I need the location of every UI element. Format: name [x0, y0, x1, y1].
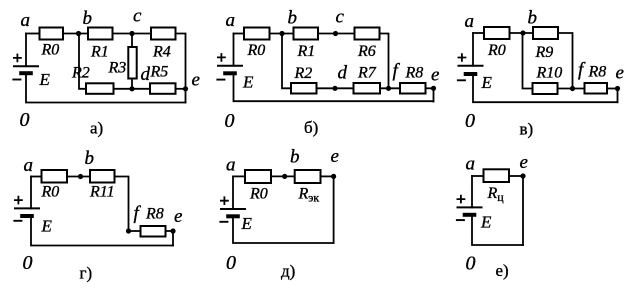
svg-text:R0: R0 — [487, 42, 506, 59]
wire R8 to node e (circuit v) — [608, 88, 618, 90]
wire battery - to node 0 and bottom rail (circuit a) — [26, 75, 186, 102]
wire node a to Rc (circuit e) — [472, 175, 483, 177]
wire R0 to R1 through node b (circuit a) — [64, 33, 87, 35]
svg-text:b: b — [85, 148, 95, 169]
svg-text:E: E — [481, 73, 493, 92]
wire node e down to bottom rail (circuit b) — [433, 88, 435, 101]
svg-text:e: e — [331, 146, 339, 167]
wire R1 to R6 through node c (circuit b) — [319, 33, 354, 35]
wire node e down to bottom rail (circuit d) — [333, 176, 335, 243]
resistor Rc (circuit e) — [484, 169, 510, 182]
resistor R4 (circuit a) — [151, 28, 176, 40]
svg-text:R3: R3 — [108, 60, 127, 77]
node b junction (circuit d) — [282, 174, 287, 179]
svg-text:E: E — [39, 70, 51, 89]
resistor R2 (circuit a) — [86, 83, 114, 94]
wire node a to R0 (circuit d) — [233, 175, 244, 177]
wire R9 right edge down to node f (circuit v) — [559, 33, 573, 89]
svg-text:R7: R7 — [357, 65, 377, 82]
svg-text:0: 0 — [20, 109, 30, 131]
wire R3 down to node d (circuit a) — [131, 80, 133, 89]
svg-text:e: e — [616, 63, 624, 84]
resistor R11 (circuit g) — [90, 170, 115, 183]
svg-text:E: E — [241, 214, 253, 233]
svg-text:R8: R8 — [588, 64, 607, 81]
wire battery - to node 0 and bottom rail (circuit e) — [472, 217, 523, 245]
svg-text:R1: R1 — [90, 44, 109, 61]
wire node a to R0 (circuit a) — [26, 33, 39, 35]
battery E positive plate (circuit b) — [217, 65, 243, 67]
svg-text:R5: R5 — [150, 64, 169, 81]
resistor R7 (circuit b) — [354, 83, 381, 94]
minus sign (circuit a) — [12, 79, 21, 81]
plus sign (circuit b) — [217, 53, 226, 62]
svg-text:R9: R9 — [535, 44, 554, 61]
resistor R8 (circuit v) — [585, 83, 608, 94]
plus sign (circuit a) — [13, 54, 22, 63]
svg-text:R8: R8 — [405, 65, 424, 82]
wire battery - to node 0 and bottom rail (circuit g) — [31, 218, 173, 246]
battery E positive plate (circuit d) — [220, 208, 246, 210]
resistor R0 (circuit b) — [244, 28, 270, 40]
svg-text:R0: R0 — [41, 184, 60, 201]
svg-text:c: c — [336, 6, 345, 27]
node b junction (circuit g) — [78, 174, 83, 179]
wire R2 to R5 through node d (circuit a) — [115, 88, 150, 90]
svg-text:E: E — [480, 213, 492, 232]
svg-text:R1: R1 — [297, 43, 316, 60]
wire Rc to node e (circuit e) — [510, 175, 523, 177]
battery E positive plate (circuit e) — [457, 206, 483, 208]
wire battery - to node 0 and bottom rail (circuit v) — [473, 76, 618, 102]
resistor Rek (circuit d) — [295, 170, 321, 183]
wire node a to battery + (circuit b) — [233, 34, 235, 66]
svg-text:a: a — [226, 10, 236, 31]
resistor R2 (circuit b) — [291, 83, 317, 94]
svg-text:a: a — [21, 10, 31, 31]
svg-text:г): г) — [80, 264, 93, 283]
battery E negative plate (circuit v) — [464, 72, 478, 76]
wire R11 right edge down to node f (circuit g) — [116, 177, 129, 232]
node e junction (circuit b) — [431, 86, 436, 91]
svg-text:e: e — [192, 70, 200, 91]
svg-text:c: c — [133, 5, 142, 26]
minus sign (circuit b) — [216, 79, 225, 81]
svg-text:e: e — [431, 65, 439, 86]
svg-text:a: a — [24, 155, 34, 176]
svg-text:d: d — [141, 64, 151, 85]
wire node e down to bottom rail (circuit g) — [172, 231, 174, 246]
svg-text:E: E — [242, 73, 254, 92]
plus sign (circuit e) — [457, 195, 466, 204]
svg-text:b: b — [528, 8, 538, 29]
node b junction (circuit a) — [76, 31, 81, 36]
node d junction (circuit b) — [332, 86, 337, 91]
battery E negative plate (circuit d) — [226, 214, 240, 218]
resistor R3 (circuit a) — [128, 47, 136, 79]
wire node b down to R2 (circuit b) — [282, 34, 290, 89]
resistor R10 (circuit v) — [533, 83, 558, 94]
wire node e down to bottom rail (circuit e) — [522, 176, 524, 245]
wire R10 to R8 through node f (circuit v) — [559, 88, 584, 90]
resistor R6 (circuit b) — [355, 28, 380, 40]
svg-text:0: 0 — [225, 110, 235, 132]
node b junction (circuit v) — [520, 30, 525, 35]
wire Rek to node e (circuit d) — [322, 175, 334, 177]
wire node c down to R3 (circuit a) — [131, 34, 133, 47]
wire node a to R0 (circuit g) — [31, 176, 41, 178]
wire node a to battery + (circuit d) — [232, 176, 234, 209]
svg-text:а): а) — [90, 119, 103, 138]
resistor R0 (circuit g) — [42, 170, 68, 183]
wire R8 to node e (circuit g) — [167, 230, 174, 232]
node e junction (circuit e) — [520, 173, 525, 178]
resistor R0 (circuit v) — [484, 27, 510, 39]
battery E negative plate (circuit g) — [20, 214, 34, 218]
svg-text:R6: R6 — [357, 43, 376, 60]
resistor R0 (circuit a) — [40, 28, 64, 40]
svg-text:d: d — [338, 62, 348, 83]
battery E negative plate (circuit e) — [463, 213, 477, 217]
resistor R1 (circuit b) — [294, 28, 319, 40]
svg-text:e: e — [520, 152, 528, 173]
wire R0 to R11 through node b (circuit g) — [68, 176, 89, 178]
battery E negative plate (circuit a) — [19, 71, 33, 75]
svg-text:a: a — [226, 155, 236, 176]
wire R6 right edge down to node f (circuit b) — [381, 34, 389, 89]
wire R0 to R9 through node b (circuit v) — [511, 32, 533, 34]
wire node a to R0 (circuit v) — [473, 32, 483, 34]
node e junction (circuit g) — [170, 228, 175, 233]
svg-text:b: b — [83, 8, 93, 29]
wire R2 to R7 through node d (circuit b) — [318, 87, 353, 89]
node e junction (circuit a) — [183, 86, 188, 91]
node f junction (circuit v) — [570, 86, 575, 91]
wire node a to battery + (circuit e) — [471, 176, 473, 207]
wire node a to R0 (circuit b) — [234, 33, 244, 35]
svg-text:R4: R4 — [152, 44, 171, 61]
svg-text:R2: R2 — [294, 65, 313, 82]
node c junction (circuit b) — [333, 31, 338, 36]
wire R4 to right edge down to node e (circuit a) — [177, 34, 186, 103]
wire node f to R8 (circuit g) — [129, 230, 140, 232]
svg-text:б): б) — [304, 118, 318, 137]
svg-text:0: 0 — [226, 252, 236, 274]
svg-text:д): д) — [281, 262, 295, 281]
svg-text:b: b — [288, 8, 298, 29]
minus sign (circuit v) — [457, 79, 466, 81]
svg-text:R11: R11 — [89, 184, 115, 201]
svg-text:R10: R10 — [536, 65, 563, 82]
wire node a to battery + (circuit g) — [30, 177, 32, 209]
svg-text:е): е) — [496, 261, 509, 280]
wire R5 to node e (circuit a) — [177, 88, 186, 90]
battery E negative plate (circuit b) — [223, 71, 237, 75]
wire R0 to Rek through node b (circuit d) — [272, 175, 294, 177]
svg-text:b: b — [290, 147, 300, 168]
wire node b down to R10 (circuit v) — [523, 33, 532, 89]
svg-text:R0: R0 — [247, 42, 266, 59]
battery E positive plate (circuit g) — [14, 207, 40, 209]
svg-text:e: e — [174, 206, 182, 227]
node c junction (circuit a) — [129, 31, 134, 36]
svg-text:R0: R0 — [41, 42, 60, 59]
svg-text:a: a — [465, 11, 475, 32]
battery E positive plate (circuit a) — [13, 65, 39, 67]
resistor R9 (circuit v) — [533, 27, 558, 39]
resistor R5 (circuit a) — [150, 83, 176, 94]
wire node e down to bottom rail (circuit v) — [617, 89, 619, 103]
node e junction (circuit d) — [331, 174, 336, 179]
svg-text:R0: R0 — [249, 186, 268, 203]
svg-text:a: a — [466, 154, 476, 175]
wire node b down to R2 (circuit a) — [79, 34, 85, 89]
plus sign (circuit d) — [220, 196, 229, 205]
battery E positive plate (circuit v) — [458, 65, 484, 67]
svg-text:в): в) — [520, 120, 534, 139]
wire node a to battery + (circuit v) — [472, 33, 474, 66]
wire R8 to node e (circuit b) — [427, 87, 434, 89]
svg-text:R2: R2 — [71, 65, 90, 82]
svg-text:R8: R8 — [145, 206, 164, 223]
wire R1 to R4 through node c (circuit a) — [114, 33, 151, 35]
resistor R1 (circuit a) — [88, 28, 113, 40]
resistor R8 (circuit g) — [141, 226, 166, 237]
wire node a to battery + (circuit a) — [25, 34, 27, 67]
minus sign (circuit d) — [219, 221, 228, 223]
node f junction (circuit b) — [386, 86, 391, 91]
svg-text:0: 0 — [23, 252, 33, 274]
svg-text:E: E — [41, 217, 53, 236]
node e junction (circuit v) — [615, 86, 620, 91]
svg-text:0: 0 — [465, 110, 475, 132]
wire battery - to node 0 and bottom rail (circuit b) — [234, 75, 434, 101]
resistor R8 (circuit b) — [400, 83, 426, 94]
minus sign (circuit e) — [456, 219, 465, 221]
node b junction (circuit b) — [279, 31, 284, 36]
wire battery - to node 0 and bottom rail (circuit d) — [233, 218, 334, 243]
minus sign (circuit g) — [13, 220, 22, 222]
resistor R0 (circuit d) — [245, 170, 271, 183]
wire R0 to R1 through node b (circuit b) — [271, 33, 293, 35]
plus sign (circuit g) — [14, 196, 23, 205]
node f junction (circuit g) — [126, 228, 131, 233]
node d junction (circuit a) — [129, 86, 134, 91]
plus sign (circuit v) — [458, 53, 467, 62]
wire R7 to R8 through node f (circuit b) — [381, 87, 399, 89]
svg-text:0: 0 — [466, 253, 476, 275]
